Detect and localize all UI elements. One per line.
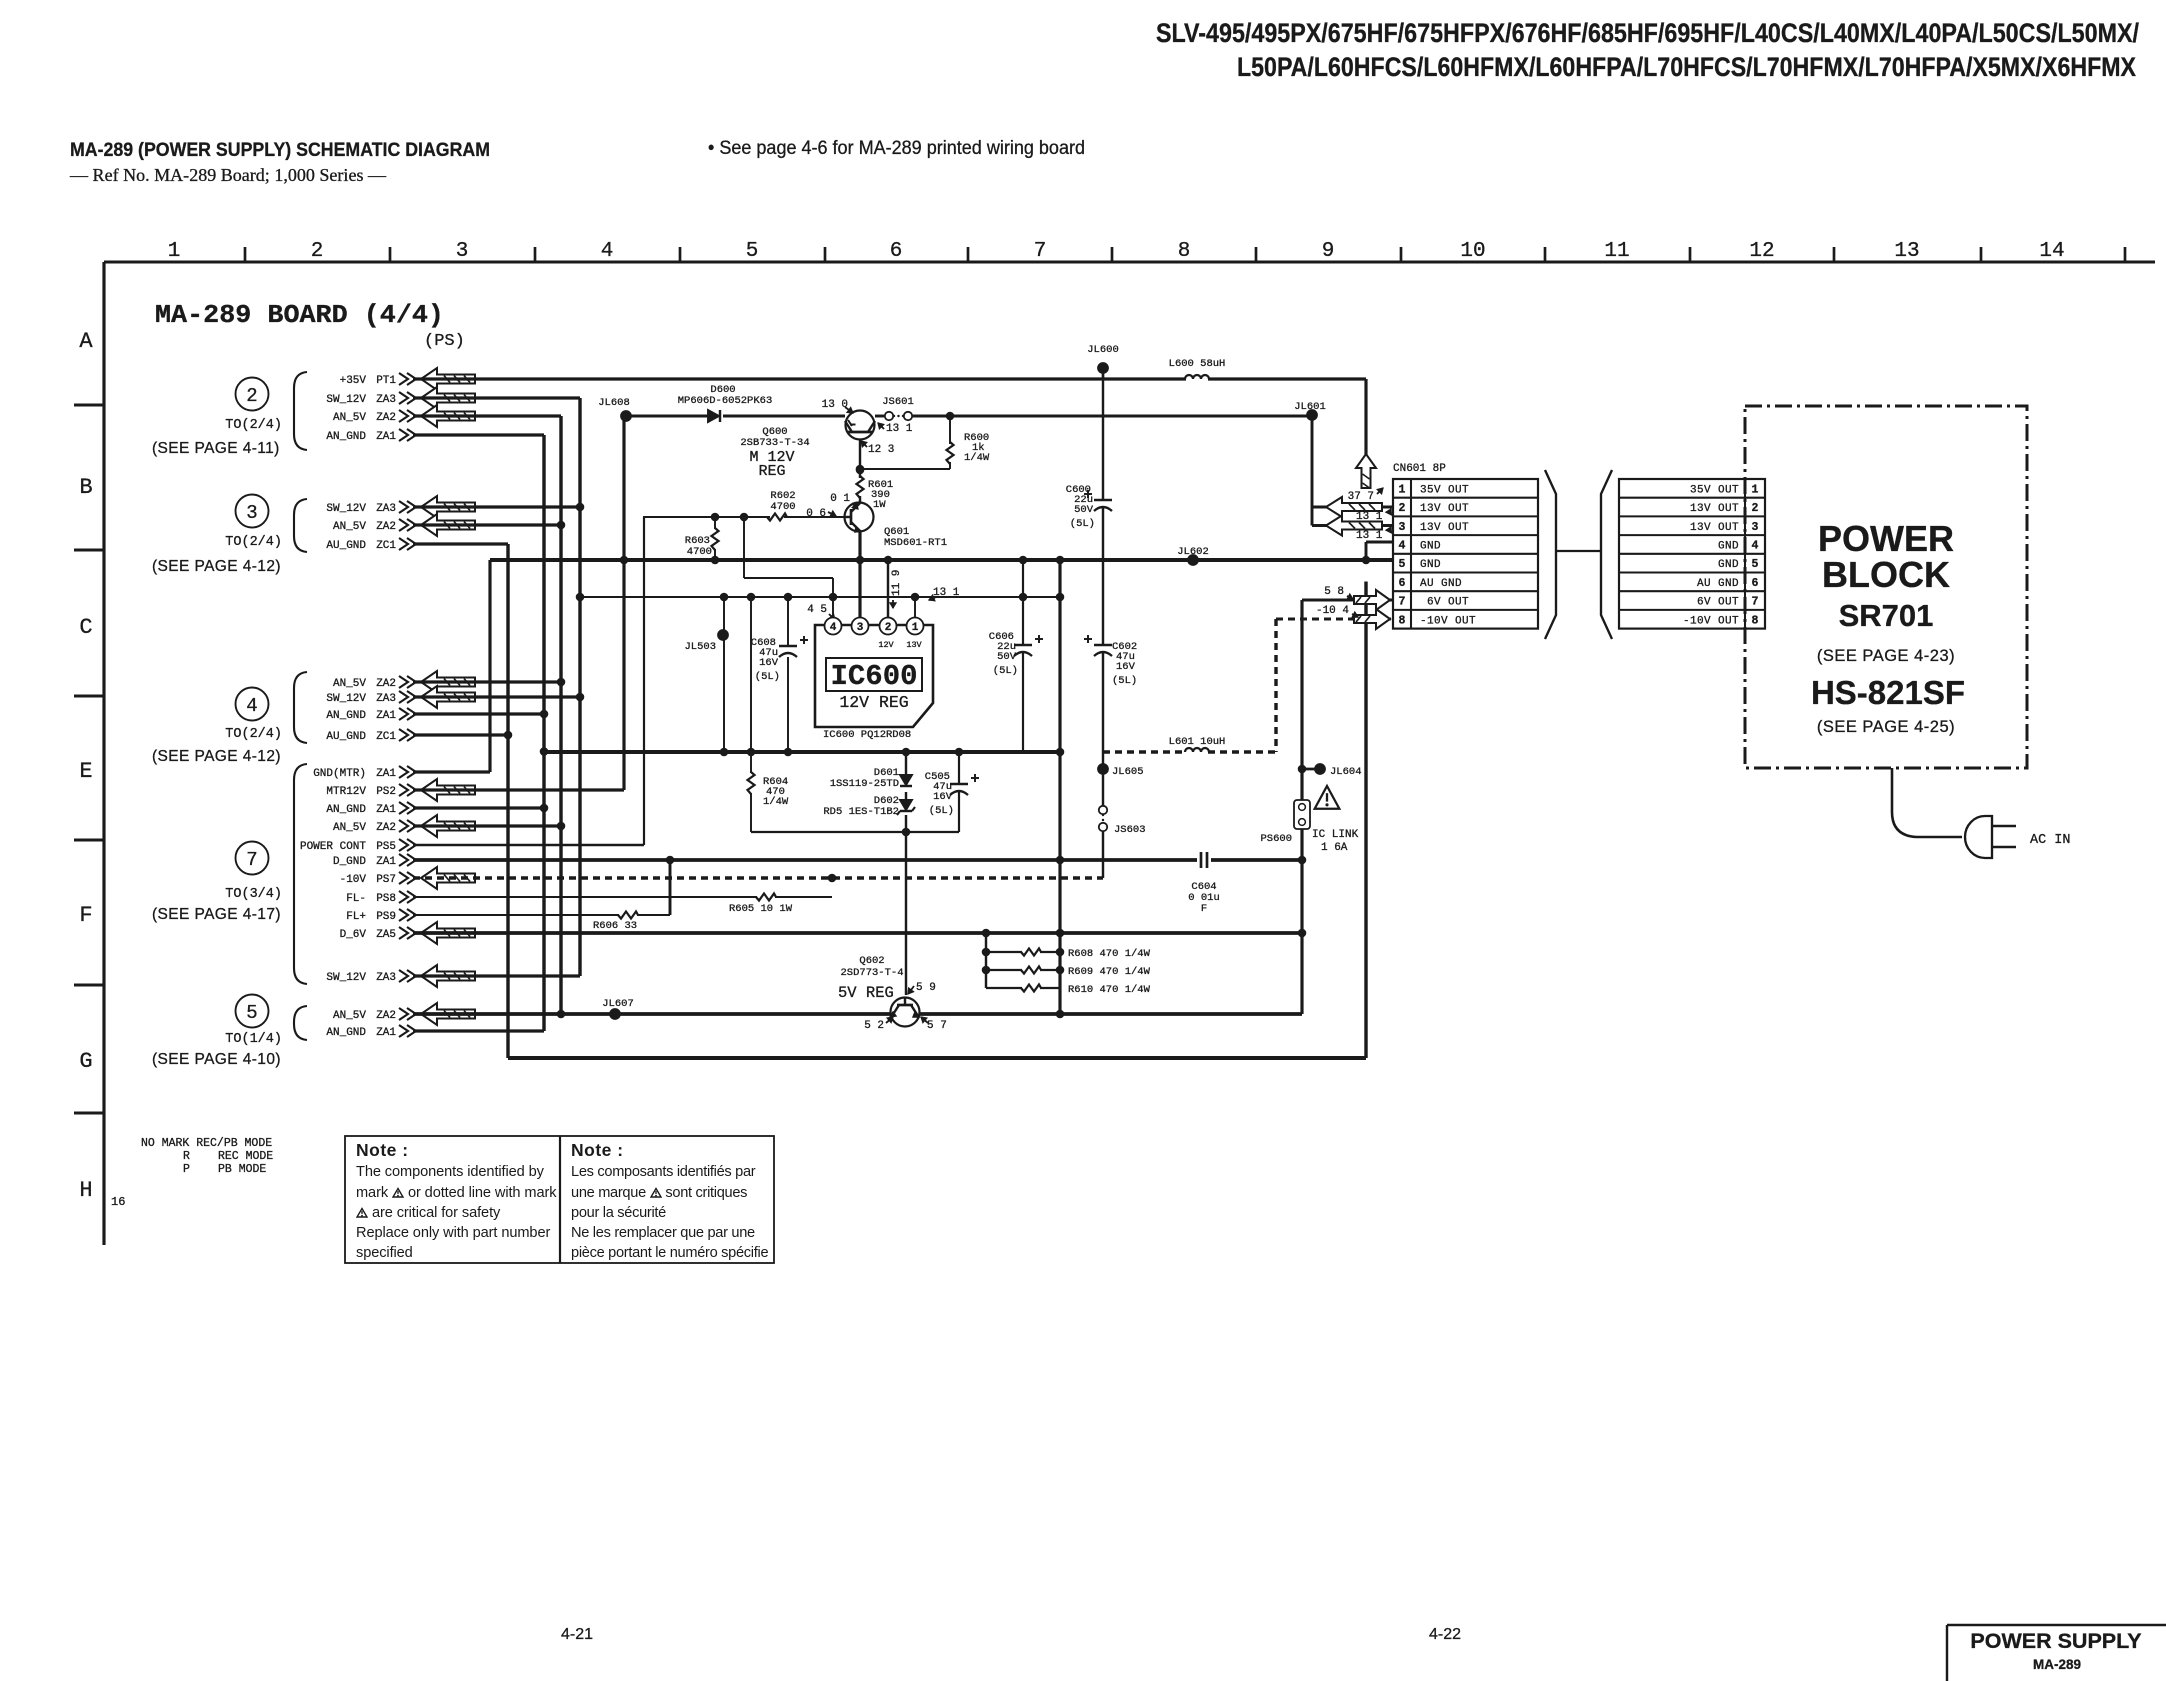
svg-text:(5L): (5L) (993, 665, 1018, 677)
svg-text:13 1: 13 1 (886, 423, 913, 435)
svg-text:JL604: JL604 (1330, 766, 1362, 778)
svg-text:IC LINK: IC LINK (1312, 829, 1359, 841)
svg-text:13V OUT: 13V OUT (1690, 522, 1739, 534)
svg-text:13V OUT: 13V OUT (1690, 503, 1739, 515)
svg-text:3: 3 (456, 240, 469, 263)
svg-text:16: 16 (111, 1195, 125, 1209)
svg-text:SR701: SR701 (1839, 598, 1934, 633)
svg-text:JL605: JL605 (1112, 766, 1144, 778)
svg-text:P: P (183, 1163, 190, 1176)
svg-text:Q602: Q602 (859, 955, 884, 967)
svg-text:E: E (79, 759, 92, 784)
svg-text:1: 1 (1399, 483, 1406, 496)
svg-text:POWER SUPPLY: POWER SUPPLY (1970, 1629, 2141, 1653)
svg-text:(5L): (5L) (1070, 518, 1095, 530)
svg-text:B: B (79, 475, 92, 500)
svg-text:5 8: 5 8 (1324, 586, 1344, 598)
svg-text:16V: 16V (933, 791, 953, 803)
svg-text:AN_GND: AN_GND (326, 1027, 366, 1039)
svg-text:1: 1 (1752, 483, 1759, 496)
svg-text:MA-289: MA-289 (2033, 1657, 2081, 1672)
svg-text:PS5: PS5 (376, 841, 396, 853)
svg-text:5V REG: 5V REG (838, 984, 894, 1002)
svg-text:3: 3 (1399, 521, 1406, 534)
svg-text:AN_GND: AN_GND (326, 710, 366, 722)
svg-text:7: 7 (1752, 596, 1759, 609)
svg-text:SW_12V: SW_12V (326, 394, 366, 406)
svg-text:R610 470 1/4W: R610 470 1/4W (1068, 984, 1151, 996)
svg-text:5: 5 (746, 240, 759, 263)
svg-text:PS7: PS7 (376, 874, 396, 886)
svg-text:5: 5 (246, 1002, 257, 1024)
svg-text:4: 4 (246, 695, 257, 717)
svg-text:PS8: PS8 (376, 893, 396, 905)
svg-text:37 7: 37 7 (1348, 491, 1374, 503)
svg-text:AN_5V: AN_5V (333, 678, 366, 690)
svg-text:D_GND: D_GND (333, 856, 366, 868)
svg-text:ZA3: ZA3 (376, 693, 396, 705)
svg-text:(SEE PAGE 4-12): (SEE PAGE 4-12) (152, 558, 281, 575)
svg-text:35V OUT: 35V OUT (1420, 484, 1469, 496)
svg-text:ZA1: ZA1 (376, 710, 396, 722)
svg-text:(SEE PAGE 4-11): (SEE PAGE 4-11) (152, 440, 280, 457)
svg-text:1/4W: 1/4W (763, 796, 789, 808)
svg-text:JS603: JS603 (1114, 824, 1146, 836)
svg-text:JL503: JL503 (684, 641, 716, 653)
svg-text:MA-289 (POWER SUPPLY) SCHEMATI: MA-289 (POWER SUPPLY) SCHEMATIC DIAGRAM (70, 139, 490, 161)
svg-text:11 9: 11 9 (891, 570, 903, 596)
svg-text:ZA1: ZA1 (376, 1027, 396, 1039)
svg-text:13 1: 13 1 (933, 587, 960, 599)
svg-text:-10V OUT: -10V OUT (1683, 615, 1739, 627)
svg-text:AN_5V: AN_5V (333, 822, 366, 834)
svg-text:13V: 13V (906, 640, 922, 650)
svg-text:5 9: 5 9 (916, 982, 936, 994)
svg-text:(SEE PAGE 4-25): (SEE PAGE 4-25) (1817, 718, 1955, 736)
svg-text:H: H (79, 1178, 92, 1203)
svg-text:JL602: JL602 (1177, 546, 1209, 558)
svg-text:AN_GND: AN_GND (326, 431, 366, 443)
svg-text:4: 4 (1752, 539, 1759, 552)
svg-text:R605 10 1W: R605 10 1W (729, 903, 793, 915)
svg-text:AN_5V: AN_5V (333, 1010, 366, 1022)
svg-text:PS9: PS9 (376, 911, 396, 923)
svg-text:(SEE PAGE 4-17): (SEE PAGE 4-17) (152, 906, 281, 923)
svg-text:ZA3: ZA3 (376, 394, 396, 406)
svg-text:SW_12V: SW_12V (326, 693, 366, 705)
svg-text:5 2: 5 2 (864, 1020, 884, 1032)
svg-text:• See page 4-6 for MA-289 prin: • See page 4-6 for MA-289 printed wiring… (708, 138, 1085, 159)
svg-text:5: 5 (1752, 558, 1759, 571)
svg-text:0 6: 0 6 (806, 508, 826, 520)
svg-text:13 0: 13 0 (822, 399, 848, 411)
svg-text:4-22: 4-22 (1429, 1626, 1461, 1643)
svg-text:SW_12V: SW_12V (326, 972, 366, 984)
svg-text:(PS): (PS) (424, 332, 465, 351)
svg-text:GND(MTR): GND(MTR) (313, 768, 366, 780)
svg-text:(SEE PAGE 4-10): (SEE PAGE 4-10) (152, 1051, 281, 1068)
svg-text:-10V: -10V (340, 874, 367, 886)
svg-text:JL608: JL608 (598, 397, 630, 409)
svg-text:MSD601-RT1: MSD601-RT1 (884, 537, 947, 549)
svg-text:L601 10uH: L601 10uH (1169, 736, 1226, 748)
svg-text:2: 2 (885, 622, 892, 634)
svg-text:ZA2: ZA2 (376, 1010, 396, 1022)
svg-text:13 1: 13 1 (1356, 530, 1383, 542)
svg-text:POWER: POWER (1818, 518, 1954, 559)
svg-text:PS2: PS2 (376, 786, 396, 798)
svg-text:AU_GND: AU_GND (326, 540, 366, 552)
svg-text:ZA5: ZA5 (376, 929, 396, 941)
svg-text:2SB733-T-34: 2SB733-T-34 (740, 437, 809, 449)
svg-text:TO(2/4): TO(2/4) (225, 727, 282, 742)
svg-text:TO(3/4): TO(3/4) (225, 887, 282, 902)
svg-text:JS601: JS601 (882, 396, 914, 408)
svg-text:AN_5V: AN_5V (333, 412, 366, 424)
svg-text:6V OUT: 6V OUT (1697, 597, 1739, 609)
svg-text:GND: GND (1718, 559, 1739, 571)
svg-text:R609 470 1/4W: R609 470 1/4W (1068, 966, 1151, 978)
svg-text:AU GND: AU GND (1420, 578, 1462, 590)
svg-text:ZA3: ZA3 (376, 972, 396, 984)
svg-text:4: 4 (601, 240, 614, 263)
svg-text:16V: 16V (759, 657, 779, 669)
svg-text:1 6A: 1 6A (1321, 842, 1348, 854)
svg-text:3: 3 (1752, 521, 1759, 534)
svg-text:GND: GND (1420, 559, 1441, 571)
svg-text:REG: REG (758, 463, 785, 480)
svg-text:MP606D-6052PK63: MP606D-6052PK63 (678, 395, 773, 407)
svg-text:A: A (79, 329, 93, 354)
svg-text:(5L): (5L) (755, 671, 780, 683)
svg-text:ZA1: ZA1 (376, 856, 396, 868)
svg-text:13V OUT: 13V OUT (1420, 503, 1469, 515)
svg-text:3: 3 (246, 502, 257, 524)
svg-text:SLV-495/495PX/675HF/675HFPX/67: SLV-495/495PX/675HF/675HFPX/676HF/685HF/… (1156, 18, 2139, 48)
svg-text:1/4W: 1/4W (964, 452, 990, 464)
svg-text:ZC1: ZC1 (376, 540, 396, 552)
svg-text:GND: GND (1718, 540, 1739, 552)
svg-text:13 1: 13 1 (1356, 511, 1383, 523)
svg-text:2: 2 (1752, 502, 1759, 515)
svg-text:10: 10 (1460, 240, 1485, 263)
svg-text:ZA1: ZA1 (376, 768, 396, 780)
svg-text:MA-289 BOARD (4/4): MA-289 BOARD (4/4) (155, 300, 444, 330)
svg-text:(5L): (5L) (929, 805, 954, 817)
svg-text:12 3: 12 3 (868, 444, 894, 456)
svg-text:ZA1: ZA1 (376, 431, 396, 443)
svg-text:(SEE PAGE 4-12): (SEE PAGE 4-12) (152, 748, 281, 765)
svg-text:AU_GND: AU_GND (326, 731, 366, 743)
svg-text:REC MODE: REC MODE (218, 1150, 273, 1163)
svg-text:ZA3: ZA3 (376, 503, 396, 515)
svg-text:HS-821SF: HS-821SF (1811, 674, 1965, 711)
svg-text:50V: 50V (997, 651, 1017, 663)
svg-text:14: 14 (2039, 240, 2064, 263)
svg-text:D_6V: D_6V (340, 929, 367, 941)
svg-text:3: 3 (857, 622, 864, 634)
svg-text:0 1: 0 1 (830, 493, 850, 505)
svg-text:7: 7 (246, 849, 257, 871)
svg-text:AC IN: AC IN (2030, 833, 2071, 848)
svg-text:TO(2/4): TO(2/4) (225, 535, 282, 550)
svg-text:R: R (183, 1150, 190, 1163)
svg-text:— Ref No. MA-289 Board; 1,000: — Ref No. MA-289 Board; 1,000 Series — (69, 165, 387, 185)
svg-text:GND: GND (1420, 540, 1441, 552)
svg-text:C: C (79, 615, 92, 640)
svg-text:F: F (1201, 903, 1207, 915)
svg-text:8: 8 (1178, 240, 1191, 263)
svg-text:AN_5V: AN_5V (333, 521, 366, 533)
svg-text:PT1: PT1 (376, 375, 396, 387)
svg-text:2SD773-T-4: 2SD773-T-4 (840, 967, 903, 979)
svg-text:7: 7 (1034, 240, 1047, 263)
svg-text:ZA1: ZA1 (376, 804, 396, 816)
svg-text:POWER CONT: POWER CONT (300, 841, 366, 853)
svg-text:6V OUT: 6V OUT (1427, 597, 1469, 609)
svg-text:8: 8 (1399, 614, 1406, 627)
svg-text:13: 13 (1894, 240, 1919, 263)
svg-text:+35V: +35V (340, 375, 367, 387)
svg-text:(SEE PAGE 4-23): (SEE PAGE 4-23) (1817, 647, 1955, 665)
svg-text:RD5 1ES-T1B2: RD5 1ES-T1B2 (823, 806, 899, 818)
svg-text:4-21: 4-21 (561, 1626, 593, 1643)
svg-text:9: 9 (1322, 240, 1335, 263)
svg-text:4: 4 (1399, 539, 1406, 552)
svg-text:TO(1/4): TO(1/4) (225, 1032, 282, 1047)
svg-text:5: 5 (1399, 558, 1406, 571)
svg-text:IC600: IC600 (830, 660, 917, 693)
svg-text:35V OUT: 35V OUT (1690, 484, 1739, 496)
svg-text:7: 7 (1399, 596, 1406, 609)
svg-text:1W: 1W (873, 499, 886, 511)
svg-text:ZA2: ZA2 (376, 521, 396, 533)
svg-text:13V OUT: 13V OUT (1420, 522, 1469, 534)
svg-text:AU GND: AU GND (1697, 578, 1739, 590)
svg-text:L50PA/L60HFCS/L60HFMX/L60HFPA/: L50PA/L60HFCS/L60HFMX/L60HFPA/L70HFCS/L7… (1237, 52, 2136, 82)
svg-text:F: F (79, 903, 92, 928)
svg-text:ZA2: ZA2 (376, 822, 396, 834)
svg-text:12: 12 (1749, 240, 1774, 263)
svg-text:(5L): (5L) (1112, 675, 1137, 687)
svg-text:12V REG: 12V REG (839, 693, 908, 712)
svg-text:JL607: JL607 (602, 998, 634, 1010)
svg-text:R608 470 1/4W: R608 470 1/4W (1068, 948, 1151, 960)
svg-text:CN601 8P: CN601 8P (1393, 463, 1446, 475)
svg-text:16V: 16V (1116, 661, 1136, 673)
svg-text:NO MARK REC/PB MODE: NO MARK REC/PB MODE (141, 1137, 272, 1150)
svg-text:6: 6 (890, 240, 903, 263)
svg-text:R606 33: R606 33 (593, 920, 637, 932)
svg-text:JL600: JL600 (1087, 344, 1119, 356)
svg-text:1: 1 (168, 240, 181, 263)
svg-text:4: 4 (830, 622, 837, 634)
svg-text:2: 2 (311, 240, 324, 263)
svg-text:4 5: 4 5 (807, 604, 827, 616)
svg-text:12V: 12V (878, 640, 894, 650)
svg-text:TO(2/4): TO(2/4) (225, 418, 282, 433)
svg-text:6: 6 (1752, 577, 1759, 590)
svg-text:6: 6 (1399, 577, 1406, 590)
svg-text:JL601: JL601 (1294, 401, 1326, 413)
svg-text:MTR12V: MTR12V (326, 786, 366, 798)
svg-text:1SS119-25TD: 1SS119-25TD (830, 778, 899, 790)
svg-text:SW_12V: SW_12V (326, 503, 366, 515)
svg-text:2: 2 (246, 385, 257, 407)
svg-text:FL-: FL- (346, 893, 366, 905)
svg-text:2: 2 (1399, 502, 1406, 515)
svg-text:4700: 4700 (687, 546, 712, 558)
svg-text:5 7: 5 7 (927, 1020, 947, 1032)
svg-text:BLOCK: BLOCK (1822, 554, 1950, 595)
svg-text:PS600: PS600 (1260, 833, 1292, 845)
svg-text:FL+: FL+ (346, 911, 366, 923)
svg-text:-10V OUT: -10V OUT (1420, 615, 1476, 627)
svg-text:50V: 50V (1074, 504, 1094, 516)
svg-text:IC600 PQ12RD08: IC600 PQ12RD08 (823, 729, 911, 741)
svg-text:-10 4: -10 4 (1316, 605, 1349, 617)
svg-text:1: 1 (912, 622, 919, 634)
svg-text:AN_GND: AN_GND (326, 804, 366, 816)
svg-text:G: G (79, 1049, 92, 1074)
svg-text:ZA2: ZA2 (376, 678, 396, 690)
svg-text:L600 58uH: L600 58uH (1169, 358, 1226, 370)
svg-text:4700: 4700 (770, 501, 795, 513)
svg-text:8: 8 (1752, 614, 1759, 627)
svg-text:PB MODE: PB MODE (218, 1163, 266, 1176)
svg-text:ZA2: ZA2 (376, 412, 396, 424)
svg-text:ZC1: ZC1 (376, 731, 396, 743)
svg-text:11: 11 (1604, 240, 1629, 263)
